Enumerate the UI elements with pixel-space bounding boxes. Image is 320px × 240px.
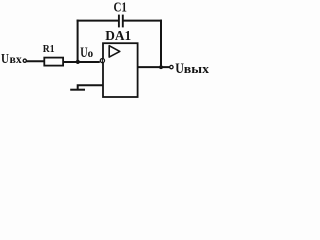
op-amp triangle	[109, 46, 120, 57]
capacitor C1 left plate	[118, 15, 120, 28]
svg-text:вх: вх	[10, 52, 22, 66]
wire non-inverting input	[78, 85, 103, 89]
output terminal	[170, 65, 173, 68]
op-amp DA1 body	[103, 43, 138, 97]
node Uо junction	[76, 60, 80, 64]
inverting input circle	[100, 59, 104, 63]
wire feedback vertical left	[77, 20, 79, 62]
resistor R1	[44, 58, 63, 66]
wire output	[138, 66, 170, 68]
wire input terminal to R1	[27, 60, 45, 62]
wire feedback top left segment	[77, 20, 119, 22]
svg-text:о: о	[88, 48, 94, 60]
svg-text:DA1: DA1	[105, 29, 131, 44]
svg-text:R1: R1	[43, 43, 55, 55]
wire R1 to op-amp input	[64, 61, 100, 63]
wire feedback vertical right	[160, 20, 162, 68]
ground bar (common)	[70, 89, 85, 91]
svg-text:U: U	[1, 52, 9, 67]
input terminal	[23, 59, 26, 62]
capacitor C1 right plate	[122, 15, 124, 28]
junction output/feedback	[159, 65, 163, 69]
svg-text:C1: C1	[114, 1, 127, 16]
wire feedback top right segment	[123, 20, 162, 22]
svg-text:вых: вых	[184, 61, 210, 76]
